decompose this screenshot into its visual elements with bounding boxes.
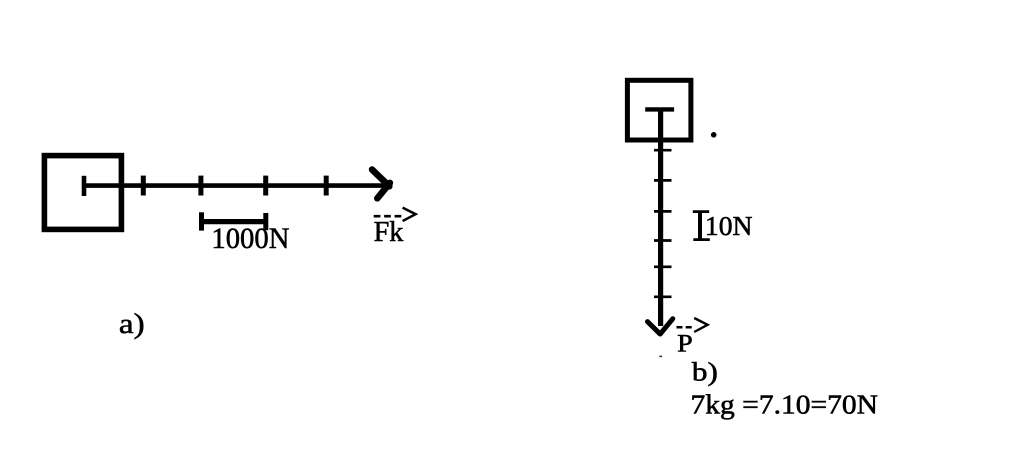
scale bar right tick xyxy=(263,213,268,230)
arrowhead of Fk xyxy=(372,170,390,199)
vector mark dashes over Fk xyxy=(374,215,402,218)
speck below P xyxy=(659,356,662,358)
svg-text:Fk: Fk xyxy=(374,217,404,248)
wire vertical force line P xyxy=(658,109,663,326)
vector mark arrowhead over Fk xyxy=(403,208,416,221)
arrowhead of P xyxy=(648,319,673,334)
vector mark dashes over P xyxy=(677,326,693,329)
node tick v5 xyxy=(654,265,672,268)
svg-text:a): a) xyxy=(119,309,145,340)
wire start tick (tail of force vector Fk) xyxy=(82,176,87,196)
node tick v4 xyxy=(654,239,672,242)
vector mark arrowhead over P xyxy=(694,318,707,332)
node tick 4 xyxy=(324,176,329,196)
node tick v2 xyxy=(654,179,672,182)
svg-text:10N: 10N xyxy=(705,211,753,241)
node tick 3 xyxy=(263,176,268,196)
node tick v3 xyxy=(654,210,672,213)
node tick v1 xyxy=(654,149,672,152)
node tick v6 xyxy=(654,295,672,298)
scale bar left tick xyxy=(199,212,204,230)
svg-text:P: P xyxy=(677,330,693,357)
wire T-bar tail of P vector xyxy=(645,107,674,111)
node tick 1 xyxy=(141,176,146,196)
wire main horizontal force line xyxy=(84,183,384,188)
dot beside box b xyxy=(711,132,717,138)
svg-text:b): b) xyxy=(692,357,718,386)
box b) mass block xyxy=(627,80,691,140)
svg-text:7kg =7.10=70N: 7kg =7.10=70N xyxy=(691,390,879,420)
scale bar 1000N xyxy=(202,219,266,224)
box a) mass block xyxy=(44,156,121,230)
svg-text:1000N: 1000N xyxy=(211,222,289,255)
node tick 2 xyxy=(198,176,203,196)
unit bracket I for 10N xyxy=(698,211,702,240)
